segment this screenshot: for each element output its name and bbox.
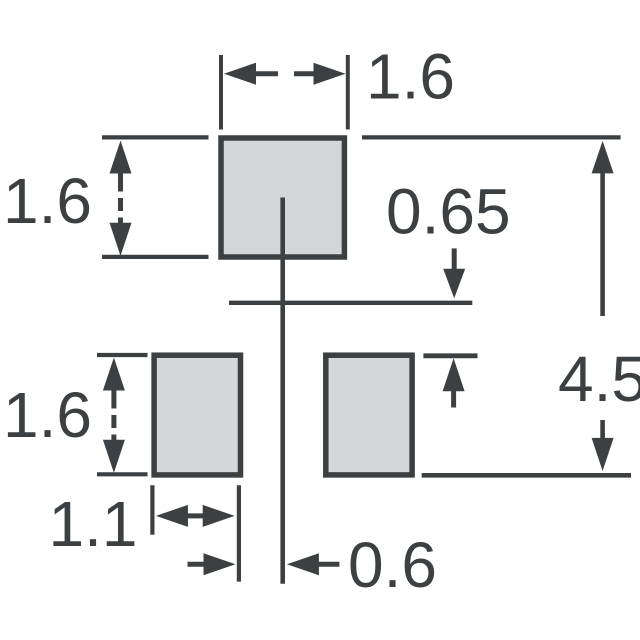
pad P2 (bottom-left pad) <box>154 355 240 475</box>
dimension 1.6 bottom-left height: up arrow <box>103 358 125 391</box>
dimension 0.65: up arrow to pad top <box>443 358 465 391</box>
pad P3 (bottom-right pad) <box>326 355 412 475</box>
wire top-right extension line <box>362 135 621 139</box>
svg-text:1.6: 1.6 <box>3 379 92 451</box>
dimension 1.6 left height: up arrow <box>110 141 132 174</box>
dimension 1.1: middle tail <box>184 513 206 518</box>
dimension 1.6 bottom-left height: bottom tick <box>97 472 148 476</box>
pad P1 (top square pad) <box>221 138 344 257</box>
dimension 1.6 left height: bottom tick <box>102 255 209 259</box>
svg-text:4.5: 4.5 <box>558 343 640 415</box>
svg-text:1.6: 1.6 <box>3 165 92 237</box>
dimension 0.6: left-pointing arrow at center line <box>287 553 319 575</box>
dimension 1.6 bottom-left height: middle dash <box>111 415 116 428</box>
dimension 1.6 left height: middle dash <box>118 198 123 211</box>
wire horizontal crossing line <box>229 301 472 305</box>
dimension 1.6 bottom-left height: down arrow <box>111 435 116 442</box>
dimension 1.6 left height: top tick <box>102 135 209 139</box>
dimension 1.6 left height: down arrow <box>118 218 123 225</box>
dimension 0.65: down arrow above crossing line <box>452 248 457 271</box>
svg-text:0.65: 0.65 <box>386 176 511 248</box>
dimension 1.6 bottom-left height: top tick <box>97 353 148 357</box>
dimension 1.1: right tick <box>237 485 241 581</box>
dimension 0.65: tick above right pad <box>423 353 477 358</box>
dimension 1.1: left arrow <box>156 505 188 527</box>
dimension 4.5: down arrow at bottom right <box>600 420 605 439</box>
dimension 1.1: right arrow <box>203 505 235 527</box>
dimension 1.1: left tick <box>150 485 154 534</box>
dimension 4.5: up arrow at top right <box>592 141 614 174</box>
wire bottom-right extension line <box>422 473 631 478</box>
svg-text:1.1: 1.1 <box>49 488 138 560</box>
dimension 1.6 top width: left arrow <box>224 63 256 85</box>
dimension 1.6 top width: right tick <box>346 55 350 130</box>
dimension 1.6 top width: right arrow <box>314 63 346 85</box>
wire center vertical line <box>280 198 285 584</box>
svg-text:1.6: 1.6 <box>366 41 455 113</box>
dimension 0.6: right-pointing arrow at tick <box>188 562 206 567</box>
svg-text:0.6: 0.6 <box>348 529 437 601</box>
dimension 1.6 top width: left tick <box>219 55 223 130</box>
